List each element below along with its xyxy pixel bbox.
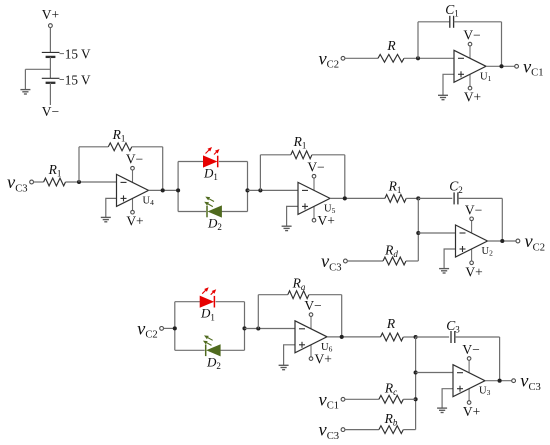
wire node to U3 inverting input xyxy=(416,372,453,374)
wire C2 to U2 output drop xyxy=(458,197,502,199)
terminal vC3 Rb input xyxy=(341,428,345,432)
wire to Ra left xyxy=(258,294,288,296)
LED D2 (row2, green) xyxy=(204,197,221,218)
V+ U6 stem xyxy=(310,345,312,357)
capacitor C1 xyxy=(450,16,454,28)
wire top branch left (row3) xyxy=(175,301,200,303)
svg-text:U6: U6 xyxy=(321,342,333,354)
wire R1 to U4 inverting input xyxy=(66,181,117,183)
wire vC2 to R xyxy=(345,57,378,59)
ground (U1 + input) xyxy=(438,95,448,99)
svg-text:U5: U5 xyxy=(324,203,336,215)
wire battery to V- xyxy=(49,83,51,105)
junction U1 output xyxy=(499,64,503,68)
wire bottom branch right (row3) xyxy=(220,349,244,351)
wire Rb to vertical xyxy=(403,429,415,431)
wire Ra to drop xyxy=(309,294,342,296)
svg-text:V+: V+ xyxy=(465,264,482,279)
wire node up to U5 feedback R1 xyxy=(259,155,261,191)
junction input node U1 xyxy=(416,56,420,60)
capacitor C3 xyxy=(451,331,455,343)
wire LED block right branch (row2) xyxy=(247,162,249,212)
junction Rc joins xyxy=(414,397,418,401)
svg-text:V+: V+ xyxy=(126,214,143,229)
wire down to U5 output xyxy=(344,155,346,199)
svg-text:U2: U2 xyxy=(482,246,494,258)
wire Rc to vertical xyxy=(403,398,415,400)
resistor R1 (U5 feedback) xyxy=(291,151,312,159)
wire top branch right (row2) xyxy=(219,161,248,163)
svg-text:V+: V+ xyxy=(463,404,480,419)
svg-text:V+: V+ xyxy=(464,90,481,105)
junction U2 inverting input xyxy=(416,231,420,235)
resistor R1 (U4 input) xyxy=(44,178,66,186)
svg-text:15 V: 15 V xyxy=(65,73,91,88)
wire node up to feedback R1 xyxy=(78,147,80,182)
junction LED left (row2) xyxy=(176,188,180,192)
op-amp U3 xyxy=(453,365,485,397)
wire U4 output to LED pair xyxy=(149,189,179,191)
junction summing node U3 xyxy=(414,335,418,339)
wire ground branch U3 + input xyxy=(442,389,453,408)
LED D1 (row2, red) xyxy=(203,147,219,167)
svg-text:R: R xyxy=(386,316,396,331)
ground (U3 + input) xyxy=(437,408,447,412)
LED D1 (row3, red) xyxy=(200,287,216,307)
junction U3 inverting input xyxy=(414,370,418,374)
V+ U3 stem xyxy=(468,389,470,401)
resistor Rc xyxy=(379,395,403,403)
wire summing node down to Rb xyxy=(415,337,417,430)
wire R1 to summing node U2 xyxy=(406,197,418,199)
junction LED right (row2) xyxy=(245,188,249,192)
wire midpoint to ground xyxy=(25,68,50,70)
wire node up to Ra xyxy=(257,295,259,329)
junction LED left (row3) xyxy=(173,326,177,330)
resistor Ra xyxy=(288,291,309,299)
V+ U5 stem xyxy=(313,206,315,218)
svg-text:U4: U4 xyxy=(143,195,155,207)
wire ground branch U1 + input xyxy=(443,74,454,95)
wire C1 right plate to output xyxy=(454,21,502,23)
wire down to U6 output xyxy=(341,295,343,337)
op-amp U4 xyxy=(117,174,149,206)
wire U5 feedback R1 to drop xyxy=(312,154,345,156)
terminal vC1 output xyxy=(515,64,519,68)
terminal vC3 Rd input xyxy=(344,259,348,263)
terminal vC3 output xyxy=(512,379,516,383)
junction U5 input node xyxy=(258,188,262,192)
svg-text:U3: U3 xyxy=(479,386,491,398)
V- U3 stem xyxy=(468,360,470,372)
terminal V+ supply xyxy=(49,24,53,28)
wire vC3 to R1 xyxy=(34,181,44,183)
resistor R1 (U4 feedback) xyxy=(108,143,132,151)
wire to feedback R1 left xyxy=(79,146,108,148)
wire down to U1 output xyxy=(501,22,503,67)
wire LED block right branch (row3) xyxy=(244,302,246,351)
svg-text:V+: V+ xyxy=(318,213,335,228)
resistor R (row1) xyxy=(378,54,404,62)
svg-text:V−: V− xyxy=(307,160,324,175)
junction LED right (row3) xyxy=(242,326,246,330)
V- U2 stem xyxy=(471,221,473,233)
wire vC3 to Rb xyxy=(345,429,379,431)
wire between batteries xyxy=(49,57,51,78)
wire down to ground symbol xyxy=(24,69,26,89)
wire LED block left branch (row3) xyxy=(174,302,176,351)
svg-text:V−: V− xyxy=(463,28,480,43)
wire bottom branch left (row2) xyxy=(178,211,206,213)
junction U5 output xyxy=(343,196,347,200)
op-amp U5 xyxy=(298,182,330,214)
junction U4 input node xyxy=(77,180,81,184)
svg-text:V−: V− xyxy=(465,202,482,217)
wire R to U1 inverting input xyxy=(404,57,454,59)
svg-text:R: R xyxy=(386,38,396,53)
wire LED block left branch (row2) xyxy=(177,162,179,212)
ground (U5 + input) xyxy=(282,226,292,230)
V- U4 stem xyxy=(132,170,134,182)
wire down to U2 output xyxy=(501,198,503,241)
battery B1 (15 V) xyxy=(42,52,64,57)
V- U5 stem xyxy=(313,178,315,190)
terminal vC2 input row1 xyxy=(341,56,345,60)
V+ U2 stem xyxy=(471,249,473,261)
wire node up to C1 xyxy=(417,22,419,59)
wire ground branch U4 + input xyxy=(106,198,117,217)
wire top branch right (row3) xyxy=(216,301,245,303)
ground (U6 + input) xyxy=(279,365,289,369)
wire node to U2 inverting input xyxy=(418,232,455,234)
svg-text:V−: V− xyxy=(462,342,479,357)
wire to C1 left plate xyxy=(418,21,450,23)
wire LED pair to U6 inverting input xyxy=(245,328,296,330)
terminal vC2 output xyxy=(516,239,520,243)
wire ground branch U5 + input xyxy=(287,206,298,226)
op-amp U6 xyxy=(295,321,327,353)
svg-text:V+: V+ xyxy=(315,352,332,367)
svg-text:V+: V+ xyxy=(42,7,59,22)
junction U3 output xyxy=(498,379,502,383)
wire bottom branch right (row2) xyxy=(222,211,248,213)
LED D2 (row3, green) xyxy=(203,335,220,356)
terminal vC1 Rc input xyxy=(341,397,345,401)
wire summing node to C2 xyxy=(418,197,452,199)
wire to U5 feedback R1 xyxy=(260,154,290,156)
wire C3 to U3 output drop xyxy=(455,336,500,338)
wire U6 output to R xyxy=(327,336,381,338)
terminal vC2 input row3 xyxy=(160,327,164,331)
wire feedback R1 to right drop xyxy=(132,146,163,148)
wire Rd to vertical xyxy=(406,260,418,262)
wire R to summing node U3 xyxy=(403,336,415,338)
wire LED pair to U5 inverting input xyxy=(248,189,299,191)
wire ground branch U2 + input xyxy=(444,249,455,269)
junction U6 input node xyxy=(256,326,260,330)
wire U5 output to R1 xyxy=(330,197,385,199)
op-amp U2 xyxy=(456,225,488,257)
wire top branch left (row2) xyxy=(178,161,203,163)
capacitor C2 xyxy=(454,192,458,204)
wire U1 output to vC1 terminal xyxy=(486,65,515,67)
wire vC1 to Rc xyxy=(345,398,379,400)
battery B2 (15 V) xyxy=(42,78,64,83)
svg-text:15 V: 15 V xyxy=(65,47,91,62)
svg-text:V−: V− xyxy=(42,104,59,119)
ground (U2 + input) xyxy=(439,269,449,273)
ground (supply midpoint) xyxy=(20,90,30,94)
resistor Rb xyxy=(379,426,403,434)
svg-text:V−: V− xyxy=(126,152,143,167)
svg-text:U1: U1 xyxy=(480,71,492,83)
V+ U4 stem xyxy=(132,198,134,210)
wire vC2 to LED pair row3 xyxy=(164,327,175,329)
V+ U1 stem xyxy=(469,74,471,86)
wire summing node down to Rd xyxy=(417,198,419,261)
ground (U4 + input) xyxy=(101,217,111,221)
junction U6 output xyxy=(340,335,344,339)
resistor R1 (row2 mid) xyxy=(385,195,406,203)
wire U3 output to vC3 terminal xyxy=(485,380,512,382)
wire vC3 to Rd xyxy=(347,260,383,262)
wire bottom branch left (row3) xyxy=(175,349,205,351)
wire down to U3 output xyxy=(499,337,501,381)
resistor R (row3) xyxy=(381,333,404,341)
wire V+ to battery B1 xyxy=(49,28,51,53)
junction U4 output xyxy=(161,188,165,192)
wire summing node to C3 xyxy=(416,336,450,338)
wire down to U4 output xyxy=(162,147,164,191)
terminal vC3 input row2 xyxy=(30,180,34,184)
junction U2 output xyxy=(500,239,504,243)
junction summing node U2 xyxy=(416,196,420,200)
wire ground branch U6 + input xyxy=(284,345,295,365)
svg-text:V−: V− xyxy=(304,298,321,313)
op-amp U1 xyxy=(454,50,486,82)
V- U6 stem xyxy=(310,317,312,329)
wire U2 output to vC2 terminal xyxy=(488,240,517,242)
V- U1 stem xyxy=(469,46,471,58)
resistor Rd xyxy=(383,257,406,265)
